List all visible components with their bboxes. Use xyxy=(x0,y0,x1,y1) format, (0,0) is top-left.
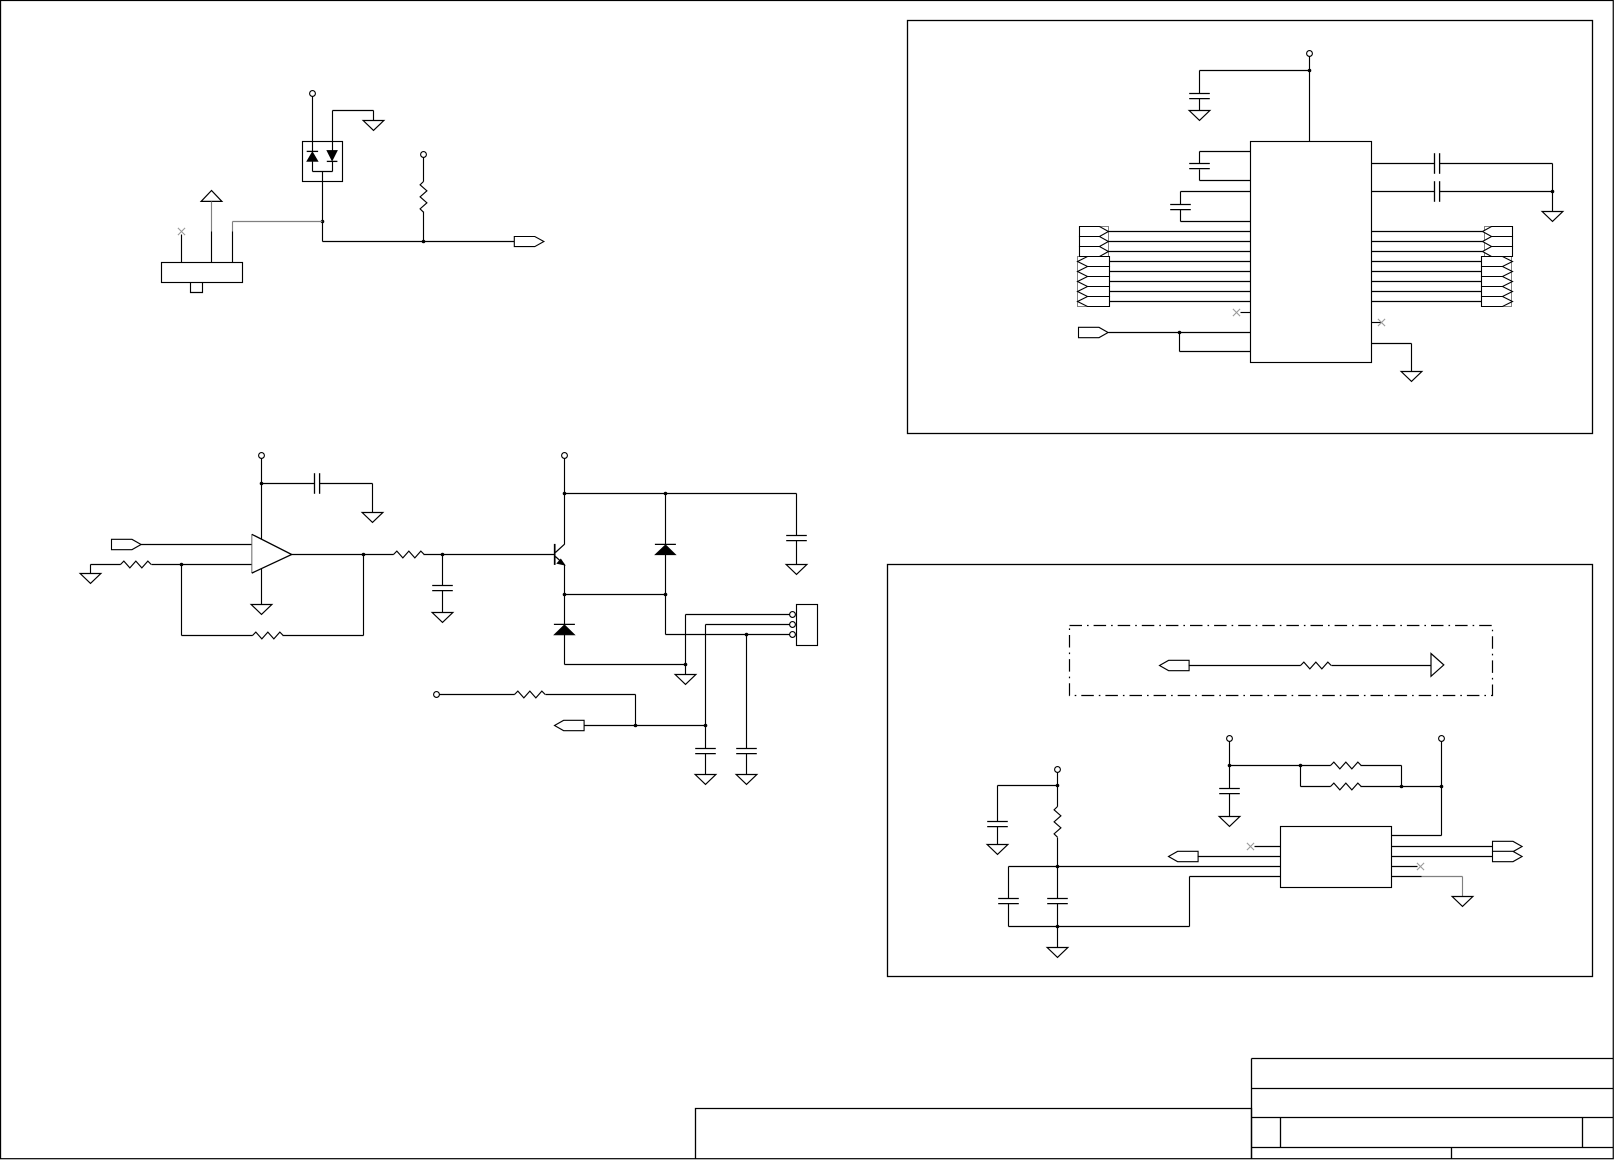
wire node to IC2 pin3 xyxy=(1058,866,1281,868)
capacitor C5 xyxy=(432,586,453,591)
ground below C6 xyxy=(786,565,807,575)
wire to C2 xyxy=(262,483,315,485)
wire op-amp V- to ground xyxy=(261,569,263,605)
wire rail up to IC2 pin4 xyxy=(1189,877,1191,927)
wire IN to op-amp + input xyxy=(141,544,252,546)
ground below C17 xyxy=(1219,817,1240,827)
connector J2 body xyxy=(797,605,818,646)
connector pin 3 xyxy=(232,232,234,263)
wire down to C9 xyxy=(1199,71,1201,94)
wire to R6 xyxy=(440,694,515,696)
wire D3 anode down xyxy=(564,635,566,665)
wire C17 to ground xyxy=(1229,794,1231,817)
wire to ground xyxy=(1552,192,1554,212)
no-connect X IC1 left xyxy=(1233,309,1240,316)
connector J2 pin 2 circle xyxy=(790,622,796,628)
capacitor C10 xyxy=(1189,164,1210,169)
wire bottom rail left xyxy=(1009,926,1058,928)
capacitor C8 xyxy=(736,749,757,754)
feedback wire right xyxy=(182,635,253,637)
ground right caps xyxy=(1542,212,1563,222)
wire D1b anode down xyxy=(332,162,334,172)
ground at R2 xyxy=(80,574,101,584)
junction caps / ground xyxy=(1551,190,1555,194)
dash-dot option box xyxy=(1070,626,1493,696)
junction VREF node xyxy=(1228,764,1232,768)
wire V+ into op-amp top xyxy=(261,484,263,540)
wire IC1 to Q2 xyxy=(1372,251,1483,253)
wire C15 down xyxy=(1008,904,1010,927)
wire R6 right xyxy=(546,694,636,696)
wire C14 to ground xyxy=(997,827,999,845)
diode D1a (left, pointing up) xyxy=(307,150,318,152)
wire IC1 to C12 xyxy=(1372,163,1435,165)
wire emitter down xyxy=(564,565,566,595)
wire bottom rail right xyxy=(1058,926,1190,928)
IC2 pin 5 stub xyxy=(1392,876,1422,878)
port Q0 right (pointing left) xyxy=(1483,227,1513,237)
wire down to R10 xyxy=(1300,766,1302,787)
wire node down to C16 xyxy=(1057,867,1059,899)
wire down to C15 xyxy=(1008,867,1010,899)
junction VREF2 net xyxy=(1440,785,1444,789)
wire to R10 xyxy=(1301,786,1331,788)
wire D2 to IC1 xyxy=(1109,251,1251,253)
pin circle R6 input xyxy=(434,692,440,698)
wire D1b cathode up out of box xyxy=(332,111,334,151)
port Q3 right (pointing right) xyxy=(1482,257,1513,267)
capacitor C15 xyxy=(998,899,1019,904)
wire R8 to node xyxy=(1057,838,1059,867)
wire C5 to ground xyxy=(442,591,444,613)
title block frame xyxy=(1252,1059,1614,1159)
pin circle VREF left xyxy=(1227,736,1233,742)
wire pin3 tap down to C8 xyxy=(746,635,748,749)
capacitor C17 xyxy=(1219,789,1240,794)
wire EN branch down xyxy=(1179,333,1181,352)
wire R10 right to pin net xyxy=(1361,786,1442,788)
connector J2 pin 3 circle xyxy=(790,632,796,638)
wire TERM to R7 xyxy=(1189,665,1301,667)
wire V+ down xyxy=(261,459,263,484)
wire D2 anode down xyxy=(665,555,667,595)
wire IC1 to C13 xyxy=(1372,191,1435,193)
wire down to ground xyxy=(1411,344,1413,372)
bus port group box (left, upper 3) xyxy=(1080,227,1109,257)
resistor R9 xyxy=(1331,762,1362,769)
junction emitter node xyxy=(563,593,567,597)
wire down to C6 xyxy=(796,494,798,536)
wire C10 down xyxy=(1199,170,1201,181)
wire op-amp - input left xyxy=(152,564,252,566)
wire VCC to IC1 top xyxy=(1309,57,1311,142)
port Q7 right (pointing right) xyxy=(1482,297,1513,307)
feedback wire down xyxy=(181,565,183,636)
resistor R2 to ground xyxy=(121,561,152,568)
junction output node xyxy=(362,553,366,557)
wire IC1 to Q5 xyxy=(1372,281,1482,283)
IC1 box xyxy=(1251,142,1372,363)
wire down to ground xyxy=(372,484,374,513)
ground below C2 xyxy=(362,513,383,523)
pin circle VCC Q1 xyxy=(562,453,568,459)
wire D1a anode down xyxy=(312,162,314,172)
wire C12 right xyxy=(1440,163,1553,165)
input port IN xyxy=(112,539,142,549)
ground below C9 xyxy=(1189,111,1210,121)
wire R1 top xyxy=(423,158,425,182)
wire down xyxy=(665,595,667,635)
wire node down xyxy=(322,222,324,242)
wire to ground xyxy=(1057,927,1059,948)
pin circle VCC input of D1 pair xyxy=(310,91,316,97)
wire junction to ground xyxy=(685,665,687,675)
wire R2 to corner xyxy=(91,564,121,566)
junction collector rail xyxy=(563,492,567,496)
junction VCC / C9 xyxy=(1308,69,1312,73)
wire from pin circle down to dual diode anode xyxy=(312,97,314,152)
bus port group box (right, upper 3) xyxy=(1485,227,1513,257)
wire R7 to net arrow xyxy=(1332,665,1432,667)
title block comment box (left) xyxy=(696,1109,1252,1159)
connector J2 pin 1 circle xyxy=(790,612,796,618)
wire back to IC1 xyxy=(1181,221,1251,223)
junction V+ / C2 xyxy=(260,482,264,486)
wire C11 down xyxy=(1180,210,1182,222)
wire D7 to IC1 xyxy=(1110,301,1251,303)
wire R4 to Q1 base xyxy=(424,554,555,556)
wire (gray) down xyxy=(232,222,234,232)
capacitor C7 xyxy=(695,749,716,754)
net arrow (open triangle right) xyxy=(1431,654,1444,677)
junction pin2 / R6 net xyxy=(704,724,708,728)
wire IC1 to Q7 xyxy=(1372,301,1482,303)
port FB (pointing left) xyxy=(555,720,585,730)
wire D4 to IC1 xyxy=(1110,271,1251,273)
ground bottom rail xyxy=(1047,948,1068,958)
op-amp U2 triangle xyxy=(252,534,292,573)
ground below C7 xyxy=(695,775,716,785)
connector J1 mounting tab xyxy=(191,282,203,292)
junction at R1 bottom xyxy=(422,240,426,244)
wire down to ground xyxy=(373,111,375,121)
wire to C9 xyxy=(1200,70,1310,72)
wire D5 to IC1 xyxy=(1110,281,1251,283)
resistor R3 feedback xyxy=(253,632,284,639)
wire up to conn pin1 elbow xyxy=(685,615,687,665)
input port EN xyxy=(1079,327,1109,337)
port TERM (pointing left) xyxy=(1160,660,1190,670)
wire down through node xyxy=(1229,742,1231,789)
port D0 left (pointing right) xyxy=(1080,227,1109,237)
wire IC1 to Q4 xyxy=(1372,271,1482,273)
ground below C5 xyxy=(432,613,453,623)
port D1 left (pointing right) xyxy=(1080,237,1109,247)
ground below C14 xyxy=(987,845,1008,855)
junction EN split xyxy=(1178,331,1182,335)
wire to IC2 top-right pin xyxy=(1392,835,1442,837)
wire down to C7 xyxy=(705,726,707,749)
wire emitter rail xyxy=(565,594,666,596)
port Q6 right (pointing right) xyxy=(1482,287,1513,297)
resistor R10 xyxy=(1331,783,1362,790)
ground below C8 xyxy=(736,775,757,785)
port D7 left (pointing left) xyxy=(1078,297,1110,307)
wire to ground junction xyxy=(565,664,686,666)
wire down to C14 xyxy=(997,786,999,822)
capacitor C14 xyxy=(987,822,1008,827)
ground below op-amp xyxy=(251,605,272,615)
no-connect stub IC1 right xyxy=(1372,322,1382,324)
no-connect stub IC2 left xyxy=(1255,846,1281,848)
wire center tap down to node xyxy=(322,172,324,222)
wire C8 to ground xyxy=(746,754,748,775)
output port (right) xyxy=(514,237,544,247)
capacitor C12 xyxy=(1435,153,1440,174)
diode D1b (right, pointing down) xyxy=(327,150,338,161)
connector pin 2 xyxy=(211,232,213,263)
section frame box (bottom-right) xyxy=(888,565,1593,977)
wire IC1 pin to C11 xyxy=(1181,191,1251,193)
port TX1 (pointing right) xyxy=(1493,841,1523,851)
resistor R1 xyxy=(420,182,427,213)
pin circle V+ op-amp xyxy=(259,453,265,459)
wire VCC down to collector rail xyxy=(564,459,566,494)
ground symbol xyxy=(675,675,696,685)
port Q5 right (pointing right) xyxy=(1482,277,1513,287)
wire (gray) pin5 to ground elbow xyxy=(1422,876,1463,878)
capacitor C13 xyxy=(1435,181,1440,202)
ground IC1 right xyxy=(1401,372,1422,382)
port Q2 right (pointing left) xyxy=(1483,247,1513,257)
wire to ground elbow xyxy=(333,110,374,112)
port D3 left (pointing left) xyxy=(1078,257,1110,267)
wire IC1 to Q0 xyxy=(1372,231,1483,233)
junction feedback node xyxy=(180,563,184,567)
junction D2 / conn xyxy=(664,593,668,597)
junction node ESD net xyxy=(321,220,325,224)
feedback wire to output leg xyxy=(283,635,364,637)
wire C13 right xyxy=(1440,191,1553,193)
junction ground node xyxy=(684,663,688,667)
wire collector xyxy=(564,494,566,545)
wire IC2 to port TX1 xyxy=(1392,846,1493,848)
capacitor C9 xyxy=(1189,94,1210,99)
wire EN to IC1 xyxy=(1109,332,1251,334)
wire down xyxy=(1199,152,1201,164)
wire joining diode anodes xyxy=(313,171,333,173)
port D6 left (pointing left) xyxy=(1078,287,1110,297)
wire to IC2 pin4 xyxy=(1190,876,1281,878)
wire D1 to IC1 xyxy=(1109,241,1251,243)
wire D0 to IC1 xyxy=(1109,231,1251,233)
wire node to R9 xyxy=(1230,765,1331,767)
wire C6 to ground xyxy=(796,541,798,565)
wire IC1 to Q3 xyxy=(1372,261,1482,263)
resistor R6 xyxy=(515,691,546,698)
wire pin2 down xyxy=(705,625,707,726)
pin circle VDD filter xyxy=(1055,767,1061,773)
capacitor C11 xyxy=(1170,205,1191,210)
pin circle top of R1 xyxy=(421,152,427,158)
wire R9 right xyxy=(1361,765,1402,767)
no-connect X IC2 right xyxy=(1417,863,1424,870)
junction R9/R10 right xyxy=(1400,785,1404,789)
junction C8 tap xyxy=(745,633,749,637)
wire down to ground xyxy=(90,565,92,574)
wire junction to pin2 net xyxy=(636,725,706,727)
pin circle VREF right xyxy=(1439,736,1445,742)
resistor R4 series xyxy=(394,551,425,558)
port Q1 right (pointing left) xyxy=(1483,237,1513,247)
wire IC1 pin to ground elbow xyxy=(1372,343,1412,345)
resistor R8 xyxy=(1054,807,1061,838)
junction R8 / IC2 net xyxy=(1056,865,1060,869)
bus port group box (left, lower 5) xyxy=(1078,257,1110,307)
capacitor C16 xyxy=(1047,899,1068,904)
IC2 box xyxy=(1281,827,1392,888)
wire VREF right down xyxy=(1441,742,1443,787)
junction at C5 xyxy=(441,553,445,557)
title block cell dividers xyxy=(1281,1118,1583,1159)
diode D2 (upper, pointing up) xyxy=(665,494,667,545)
wire IC2 to port TX2 xyxy=(1392,856,1493,858)
wire C16 down xyxy=(1057,904,1059,927)
no-connect stub IC2 right xyxy=(1392,866,1418,868)
junction rail / D2 xyxy=(664,492,668,496)
wire RX to IC2 xyxy=(1198,856,1281,858)
connector J1 body xyxy=(162,263,243,283)
capacitor C6 xyxy=(786,536,807,541)
port RX (pointing left) xyxy=(1169,851,1199,861)
wire node left to C15 xyxy=(1009,866,1058,868)
wire C9 to ground xyxy=(1199,99,1201,111)
transistor Q1 (NPN) xyxy=(555,544,565,565)
wire back to IC1 xyxy=(1200,180,1251,182)
ground below D1b xyxy=(363,121,384,131)
wire down to C5 xyxy=(442,555,444,586)
wire connector pin 2 left xyxy=(706,624,791,626)
wire EN branch to IC1 xyxy=(1180,351,1251,353)
wire op-amp output xyxy=(292,554,394,556)
wire collector rail right xyxy=(565,493,797,495)
wire down to IC2 pin1R elbow xyxy=(1441,787,1443,836)
wire down to port node xyxy=(635,695,637,726)
junction bottom rail xyxy=(1056,925,1060,929)
connector pin 1 xyxy=(181,235,183,263)
wire (gray) node to connector pin elbow xyxy=(233,221,323,223)
port TX2 (pointing right) xyxy=(1493,851,1523,861)
wire R1 bottom xyxy=(423,212,425,242)
junction port node xyxy=(634,724,638,728)
bus port group box (right, lower 5) xyxy=(1482,257,1512,307)
no-connect X on pin 1 xyxy=(178,228,185,235)
no-connect stub IC1 left xyxy=(1241,312,1251,314)
port Q4 right (pointing right) xyxy=(1482,267,1513,277)
no-connect X IC2 left xyxy=(1247,843,1254,850)
wire to connector pin 1 xyxy=(686,614,791,616)
junction VDD node xyxy=(1056,784,1060,788)
dual diode package box D1 xyxy=(303,142,343,182)
wire down xyxy=(1552,164,1554,192)
wire C7 to ground xyxy=(705,754,707,775)
ground IC2 right xyxy=(1452,897,1473,907)
wire to connector pin 3 xyxy=(666,634,791,636)
diode D3 (lower, pointing up) xyxy=(564,595,566,625)
wire down through node xyxy=(1057,773,1059,807)
junction R9/R10 left xyxy=(1299,764,1303,768)
no-connect X IC1 right xyxy=(1378,319,1385,326)
wire to C14 xyxy=(998,785,1058,787)
port D4 left (pointing left) xyxy=(1078,267,1110,277)
feedback wire up xyxy=(363,555,365,636)
port D2 left (pointing right) xyxy=(1080,247,1109,257)
wire IC1 to Q1 xyxy=(1372,241,1483,243)
wire IC1 to Q6 xyxy=(1372,291,1482,293)
pin circle VCC IC1 xyxy=(1307,51,1313,57)
resistor R7 termination xyxy=(1301,662,1332,669)
wire down to join xyxy=(1401,766,1403,787)
wire D6 to IC1 xyxy=(1110,291,1251,293)
wire (gray) down to ground xyxy=(1462,877,1464,897)
wire down xyxy=(1180,192,1182,205)
capacitor C2 xyxy=(315,473,320,494)
wire C2 to ground elbow xyxy=(320,483,373,485)
wire IC1 pin to C10 xyxy=(1200,151,1251,153)
VCC up-arrow supply xyxy=(201,191,222,202)
wire port to junction xyxy=(585,725,636,727)
section frame box (top-right) xyxy=(908,21,1593,434)
supply symbol pin (gray) xyxy=(211,202,213,232)
port D5 left (pointing left) xyxy=(1078,277,1110,287)
wire to output port xyxy=(323,241,515,243)
wire D3 to IC1 xyxy=(1110,261,1251,263)
